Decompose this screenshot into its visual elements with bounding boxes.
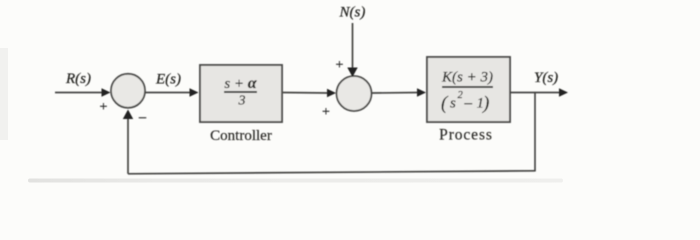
svg-text:–: – (464, 96, 473, 112)
svg-text:3: 3 (238, 94, 246, 109)
arrowhead of N(s) into S2 (347, 68, 357, 78)
summing junction S2 (337, 76, 372, 111)
page background (0, 0, 700, 186)
wire feedback drop right (534, 93, 536, 172)
arrowhead output Y(s) (559, 88, 568, 97)
wire controller to summer S2 (283, 92, 329, 95)
fraction bar of process (442, 86, 493, 88)
svg-text:E(s): E(s) (155, 72, 181, 88)
svg-text:2: 2 (458, 90, 464, 101)
svg-text:N(s): N(s) (339, 5, 366, 21)
wire feedback bottom run (128, 171, 535, 174)
summing junction S1 (111, 74, 145, 108)
wire process to output (510, 92, 560, 94)
svg-text:s: s (450, 96, 456, 112)
left gutter shading (0, 48, 8, 140)
wire summer S2 to process (372, 92, 420, 95)
svg-text:R(s): R(s) (65, 71, 91, 87)
svg-text:+: + (322, 105, 330, 120)
fraction bar of controller (224, 91, 257, 93)
svg-text:–: – (138, 110, 147, 125)
svg-text:Controller: Controller (210, 128, 272, 144)
wire E(s) (145, 92, 192, 94)
arrowhead into process (417, 88, 426, 97)
wire feedback rise left (127, 115, 129, 174)
wire R(s) input (55, 92, 103, 94)
svg-text:+: + (100, 100, 108, 115)
process block G2 (427, 57, 510, 122)
arrowhead into summer S1 (102, 88, 111, 97)
arrowhead feedback into S1 (123, 110, 133, 120)
svg-text:): ) (482, 93, 489, 114)
svg-text:s + α: s + α (224, 75, 257, 92)
svg-text:+: + (336, 58, 344, 73)
svg-text:K(s + 3): K(s + 3) (441, 70, 493, 86)
arrowhead into summer S2 (327, 89, 336, 98)
svg-text:Process: Process (439, 127, 493, 144)
wire N(s) drop (352, 23, 354, 69)
controller block G1 (200, 65, 282, 122)
arrowhead into controller (190, 88, 199, 97)
svg-text:Y(s): Y(s) (534, 70, 558, 86)
